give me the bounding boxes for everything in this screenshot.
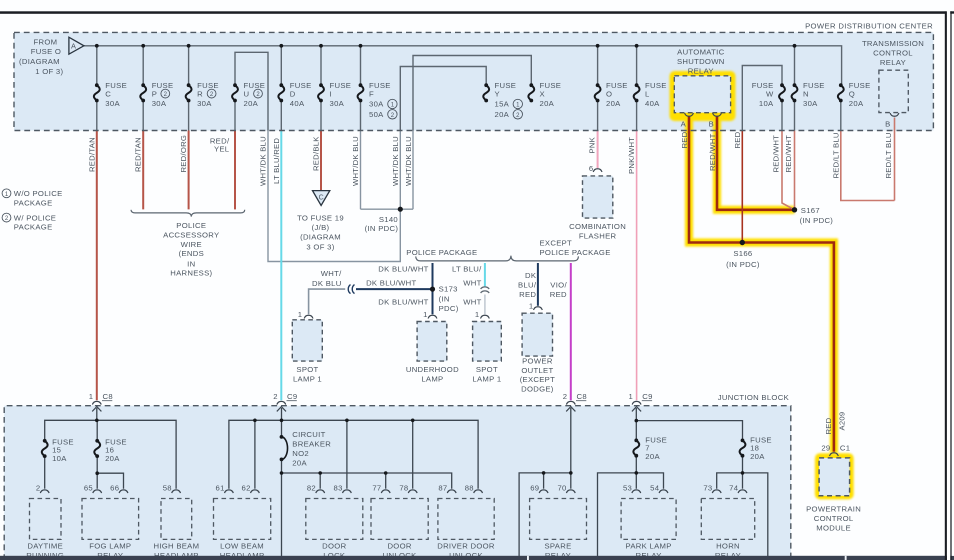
- svg-text:RED/BLK: RED/BLK: [312, 136, 321, 171]
- svg-text:I: I: [330, 89, 332, 98]
- wire fuse L drop: [636, 46, 638, 131]
- power distribution center box fill: [14, 32, 933, 130]
- pin number labels: [36, 484, 739, 493]
- svg-text:2: 2: [36, 484, 41, 493]
- wire WHT/DK BLU fuse U feed loop from S140: [235, 52, 268, 130]
- svg-text:(IN PDC): (IN PDC): [365, 224, 399, 233]
- svg-text:POLICE PACKAGE: POLICE PACKAGE: [540, 248, 611, 257]
- label dk blu/red: [518, 271, 537, 299]
- wire pin 82 drop: [319, 473, 321, 489]
- svg-text:(EXCEPT: (EXCEPT: [520, 375, 555, 384]
- svg-text:(IN PDC): (IN PDC): [800, 216, 834, 225]
- svg-text:EXCEPT: EXCEPT: [540, 238, 573, 247]
- svg-text:X: X: [540, 89, 545, 98]
- svg-text:B: B: [709, 120, 714, 129]
- C9b connector arc+arrow: [632, 401, 641, 404]
- fuse F: [358, 83, 364, 102]
- triangle A from fuse O: [69, 37, 84, 54]
- svg-text:62: 62: [242, 484, 251, 493]
- svg-text:10A: 10A: [52, 454, 67, 463]
- svg-text:RELAY: RELAY: [688, 66, 714, 75]
- fuse U: [232, 83, 238, 102]
- fuse D: [278, 83, 284, 102]
- svg-text:(ENDS: (ENDS: [179, 249, 204, 258]
- svg-text:U: U: [244, 89, 250, 98]
- wire WHT to spot lamp 1 right: [484, 295, 486, 315]
- svg-text:W/ POLICE: W/ POLICE: [14, 213, 56, 222]
- svg-text:30A: 30A: [330, 99, 345, 108]
- svg-text:W/O POLICE: W/O POLICE: [14, 189, 63, 198]
- svg-text:MODULE: MODULE: [816, 524, 851, 533]
- wire RED/LT BLU fuse Q: [841, 131, 895, 201]
- wire pin 69 drop: [543, 473, 545, 489]
- park lamp relay box: [621, 499, 676, 540]
- PCM pin 29 connector: [830, 453, 839, 456]
- svg-text:D: D: [290, 89, 296, 98]
- svg-text:POWER: POWER: [522, 357, 553, 366]
- svg-text:TRANSMISSION: TRANSMISSION: [862, 39, 924, 48]
- wire RED/WHT fuse W to S167: [782, 131, 795, 210]
- labels lt blu / wht: [452, 265, 482, 307]
- svg-text:LT BLU/RED: LT BLU/RED: [272, 138, 281, 184]
- svg-text:82: 82: [307, 484, 316, 493]
- wire fuse P drop: [142, 46, 144, 131]
- svg-text:RED/LT BLU: RED/LT BLU: [831, 132, 840, 178]
- svg-text:61: 61: [216, 484, 225, 493]
- horn relay box: [701, 499, 754, 540]
- svg-text:B: B: [885, 120, 890, 129]
- wire fuse Q bottom inside PDC: [840, 101, 842, 131]
- label spot lamp 1 left: [293, 365, 322, 383]
- wire spare relay bus: [519, 473, 571, 556]
- svg-text:RED/ORG: RED/ORG: [179, 135, 188, 173]
- wire DK BLU/RED to power outlet: [537, 263, 539, 306]
- svg-text:RED: RED: [550, 290, 567, 299]
- svg-text:S167: S167: [801, 206, 820, 215]
- svg-text:(IN PDC): (IN PDC): [726, 260, 760, 269]
- label S166: [726, 249, 760, 269]
- fuse O: [595, 83, 601, 102]
- bottom dark bar: [0, 556, 954, 560]
- wire fuse W loop to S166 RED (gray inside PDC): [742, 66, 782, 131]
- svg-text:3 OF 3): 3 OF 3): [306, 242, 334, 251]
- fuse U label: [244, 81, 266, 108]
- fuse C: [94, 83, 100, 102]
- svg-text:POWER DISTRIBUTION CENTER: POWER DISTRIBUTION CENTER: [805, 22, 933, 31]
- svg-text:CONTROL: CONTROL: [873, 49, 913, 58]
- fuse R: [186, 83, 192, 102]
- wire ASD relay pin B RED/WHT core: [717, 117, 793, 210]
- svg-text:LAMP 1: LAMP 1: [293, 374, 322, 383]
- note 1 w/o police package: [2, 189, 11, 198]
- ASD relay label: [677, 48, 725, 76]
- svg-text:(DIAGRAM: (DIAGRAM: [19, 57, 60, 66]
- wire fuse U bottom: [234, 101, 236, 131]
- pin connector arcs at bottom boxes: [40, 490, 747, 493]
- svg-text:SHUTDOWN: SHUTDOWN: [677, 57, 725, 66]
- wire RED/TAN fuse C to C8: [96, 131, 98, 401]
- fuse I: [318, 83, 324, 102]
- svg-text:Y: Y: [495, 89, 500, 98]
- svg-text:66: 66: [110, 484, 119, 493]
- wire LT BLU/RED fuse D to C9: [280, 131, 282, 401]
- svg-text:58: 58: [163, 484, 172, 493]
- svg-text:6: 6: [589, 164, 594, 173]
- power outlet box: [522, 313, 552, 356]
- svg-text:78: 78: [399, 484, 408, 493]
- daytime running lamp relay box: [30, 499, 62, 540]
- svg-text:BREAKER: BREAKER: [292, 440, 331, 449]
- spot lamp 1 right box: [473, 322, 502, 362]
- wire fuse W bottom / fuse N drop: [782, 46, 795, 131]
- svg-text:20A: 20A: [645, 452, 660, 461]
- svg-text:65: 65: [84, 484, 93, 493]
- svg-text:69: 69: [530, 484, 539, 493]
- svg-text:WHT/DK BLU: WHT/DK BLU: [404, 136, 413, 186]
- node S166: [740, 240, 745, 245]
- label S173: [439, 285, 459, 314]
- label S167: [800, 206, 834, 225]
- bottom box labels row1: [27, 542, 740, 551]
- ASD relay box: [674, 76, 730, 113]
- label spot lamp 1 right: [472, 365, 501, 383]
- svg-text:P: P: [152, 89, 157, 98]
- svg-text:RED: RED: [680, 131, 689, 148]
- svg-text:A: A: [681, 120, 687, 129]
- svg-text:R: R: [197, 89, 203, 98]
- bottom box labels row2 (clipped by bar): [26, 551, 741, 560]
- fuse 16 label: [105, 438, 127, 463]
- svg-text:50A: 50A: [369, 110, 384, 119]
- svg-text:POLICE PACKAGE: POLICE PACKAGE: [406, 248, 477, 257]
- fuse N: [792, 83, 798, 102]
- svg-text:DK: DK: [525, 271, 537, 280]
- svg-text:10A: 10A: [759, 99, 774, 108]
- circuit breaker NO2 arc: [282, 437, 288, 460]
- fuse W label: [752, 81, 774, 108]
- svg-text:30A: 30A: [197, 99, 212, 108]
- fuse X: [528, 83, 534, 102]
- svg-text:WHT: WHT: [463, 278, 481, 287]
- wire park lamp bus: [598, 473, 664, 556]
- TCR pin B connector: [890, 113, 899, 116]
- fog lamp relay box: [82, 499, 139, 540]
- fuse P: [140, 83, 146, 102]
- svg-text:WHT/DK BLU: WHT/DK BLU: [259, 136, 268, 186]
- svg-text:FLASHER: FLASHER: [579, 232, 617, 241]
- label S140: [365, 215, 399, 233]
- combination flasher pin 6 connector: [593, 169, 602, 172]
- fuse 15: [42, 439, 48, 458]
- C9 connector arc+arrow: [277, 401, 286, 404]
- svg-text:2: 2: [273, 392, 278, 401]
- svg-text:RED: RED: [733, 131, 742, 148]
- svg-text:IN: IN: [187, 259, 195, 268]
- wire WHT/DK BLU fuse X feed loop: [413, 56, 531, 131]
- svg-text:AUTOMATIC: AUTOMATIC: [677, 48, 724, 57]
- label red/yel: [210, 136, 230, 153]
- svg-text:PARK LAMP: PARK LAMP: [626, 542, 672, 551]
- svg-text:L: L: [645, 89, 650, 98]
- fuse O label: [606, 81, 628, 108]
- svg-text:RED/TAN: RED/TAN: [134, 137, 143, 172]
- svg-text:20A: 20A: [244, 99, 259, 108]
- svg-text:Q: Q: [849, 89, 855, 98]
- wire fuse 15 to pin 2: [44, 456, 46, 489]
- JB dashed border (top/left/right): [4, 406, 791, 560]
- svg-text:VIO/: VIO/: [550, 281, 567, 290]
- wire fuse C drop: [96, 46, 98, 131]
- svg-text:DOOR: DOOR: [322, 542, 346, 551]
- wire ASD relay pin A RED core: [689, 117, 834, 452]
- fuse Q: [838, 83, 844, 102]
- wire ASD relay pin B highlighted yellow glow: [717, 115, 795, 210]
- wire WHT/DK BLU to spot lamp 1 left: [309, 289, 346, 314]
- svg-text:HARNESS): HARNESS): [170, 269, 212, 278]
- fuse Y label: [495, 81, 517, 119]
- top frame black line: [0, 11, 946, 14]
- svg-text:77: 77: [372, 484, 381, 493]
- svg-text:20A: 20A: [495, 110, 510, 119]
- svg-text:RED/WHT: RED/WHT: [784, 135, 793, 173]
- driver door unlock relay box: [438, 499, 494, 540]
- wire RED/WHT fuse N to S167: [794, 131, 796, 210]
- right page frame: [945, 11, 947, 560]
- wire RED/TAN fuse P to police brace: [142, 131, 144, 210]
- wire fuse R drop: [188, 46, 190, 131]
- svg-text:20A: 20A: [105, 454, 120, 463]
- svg-text:30A: 30A: [152, 99, 167, 108]
- fuse F label: [369, 81, 391, 119]
- wire fuse D drop: [280, 46, 282, 131]
- fuse L label: [645, 81, 667, 108]
- high beam headlamp relay box: [161, 499, 192, 540]
- svg-text:30A: 30A: [369, 100, 384, 109]
- svg-text:RED: RED: [824, 417, 833, 434]
- svg-text:C8: C8: [103, 392, 113, 401]
- wire DK BLU/WHT S173 horizontal: [356, 288, 433, 290]
- svg-text:HIGH BEAM: HIGH BEAM: [153, 542, 199, 551]
- svg-text:LAMP: LAMP: [421, 374, 443, 383]
- wire RED fuse W loop below PDC to S166: [741, 131, 743, 243]
- wire C9b stem fuse 7: [635, 408, 637, 489]
- label to fuse 19: [297, 214, 344, 252]
- svg-text:RED: RED: [519, 290, 536, 299]
- svg-text:PNK/WHT: PNK/WHT: [627, 137, 636, 174]
- svg-text:C8: C8: [577, 392, 587, 401]
- svg-text:SPOT: SPOT: [296, 365, 318, 374]
- wire fuse 16 stem: [96, 420, 98, 488]
- svg-text:(DIAGRAM: (DIAGRAM: [300, 233, 341, 242]
- svg-text:RELAY: RELAY: [880, 58, 906, 67]
- label police accessory wire: [163, 221, 219, 278]
- svg-text:1: 1: [89, 392, 94, 401]
- svg-text:DRIVER DOOR: DRIVER DOOR: [437, 542, 495, 551]
- TCR relay box: [879, 70, 908, 112]
- fuse L: [634, 83, 640, 102]
- label from fuse O: [19, 37, 63, 76]
- svg-text:15A: 15A: [495, 100, 510, 109]
- svg-text:WHT/: WHT/: [321, 269, 342, 278]
- fuse I label: [330, 81, 352, 108]
- svg-text:73: 73: [703, 484, 712, 493]
- svg-text:OUTLET: OUTLET: [521, 366, 553, 375]
- svg-text:20A: 20A: [849, 99, 864, 108]
- wire fuse 16 branch to pin 66: [97, 473, 123, 489]
- PDC dashed border: [14, 32, 933, 130]
- svg-text:C9: C9: [287, 392, 297, 401]
- svg-text:DODGE): DODGE): [521, 384, 554, 393]
- svg-text:HORN: HORN: [716, 542, 740, 551]
- fuse 16: [94, 439, 100, 458]
- door unlock relay box: [371, 499, 428, 540]
- fuse R label: [197, 81, 219, 108]
- svg-text:1: 1: [423, 310, 428, 319]
- fuse 7: [633, 439, 639, 458]
- svg-text:TO FUSE 19: TO FUSE 19: [297, 214, 344, 223]
- combination flasher box: [583, 176, 613, 218]
- svg-text:C: C: [105, 89, 111, 98]
- wire fuse F drop: [360, 46, 362, 131]
- svg-text:SPARE: SPARE: [545, 542, 572, 551]
- svg-text:S173: S173: [439, 285, 458, 294]
- wire C9 stem: [281, 408, 283, 437]
- label underhood lamp: [406, 365, 459, 383]
- wire C8 stem into junction block: [96, 408, 98, 420]
- svg-text:SPOT: SPOT: [476, 365, 498, 374]
- svg-text:40A: 40A: [290, 99, 305, 108]
- svg-text:RED/TAN: RED/TAN: [87, 137, 96, 172]
- svg-text:WHT/DK BLU: WHT/DK BLU: [351, 136, 360, 186]
- svg-text:N: N: [803, 89, 809, 98]
- vertical wire labels below PDC: [87, 131, 893, 434]
- node S173: [430, 287, 435, 292]
- inline connector on LT BLU/WHT wire: [481, 287, 490, 293]
- svg-text:RED/WHT: RED/WHT: [771, 135, 780, 173]
- svg-text:DK BLU/WHT: DK BLU/WHT: [366, 278, 416, 287]
- fuse 18 label: [750, 435, 772, 461]
- svg-text:29: 29: [821, 443, 830, 452]
- svg-text:(IN: (IN: [439, 294, 450, 303]
- ASD relay yellow highlight: [670, 71, 736, 121]
- svg-text:70: 70: [557, 484, 566, 493]
- door lock relay box: [306, 499, 363, 540]
- svg-text:FROM: FROM: [34, 37, 58, 46]
- svg-text:NO2: NO2: [292, 449, 309, 458]
- fuse 15 label: [52, 438, 74, 463]
- svg-text:40A: 40A: [645, 99, 660, 108]
- fuse P label: [152, 81, 174, 108]
- svg-text:C1: C1: [840, 443, 850, 452]
- triangle C to fuse 19: [313, 191, 330, 206]
- svg-text:WHT: WHT: [463, 297, 481, 306]
- C8b connector arc+arrow: [566, 401, 575, 404]
- svg-text:O: O: [606, 89, 612, 98]
- node S167: [792, 207, 797, 212]
- wire ASD relay pin A highlighted yellow glow: [689, 115, 834, 453]
- spot lamp 1 left box: [292, 320, 322, 361]
- PCM yellow highlight: [815, 453, 854, 499]
- underhood lamp box: [417, 322, 447, 362]
- pin 1 labels mid boxes: [298, 164, 594, 319]
- wire RED/YEL fuse U to police brace: [234, 131, 236, 210]
- fuse X label: [540, 81, 562, 108]
- svg-text:20A: 20A: [292, 459, 307, 468]
- svg-text:A209: A209: [838, 412, 847, 431]
- svg-text:PACKAGE: PACKAGE: [14, 223, 53, 232]
- wire WHT/DK BLU fuse F output to S140: [360, 131, 362, 210]
- svg-text:FOG LAMP: FOG LAMP: [89, 542, 131, 551]
- ASD relay pin B connector: [713, 113, 722, 116]
- svg-text:(J/B): (J/B): [312, 223, 330, 232]
- svg-text:LOW BEAM: LOW BEAM: [220, 542, 264, 551]
- bottom component boxes: [30, 499, 755, 540]
- svg-text:RED/WHT: RED/WHT: [708, 133, 717, 171]
- fuse N label: [803, 81, 825, 108]
- svg-text:PACKAGE: PACKAGE: [14, 198, 53, 207]
- label powertrain control module: [806, 505, 861, 533]
- wire VIO/RED to C8: [570, 263, 572, 400]
- fuse W: [779, 83, 785, 102]
- wire JB bus C8: [45, 420, 176, 488]
- svg-text:BLU/: BLU/: [518, 281, 537, 290]
- fuse 18: [740, 439, 746, 458]
- svg-text:RED/LT BLU: RED/LT BLU: [884, 132, 893, 178]
- svg-text:JUNCTION BLOCK: JUNCTION BLOCK: [718, 393, 790, 402]
- svg-text:1: 1: [475, 310, 480, 319]
- svg-text:54: 54: [650, 484, 660, 493]
- TCR label: [862, 39, 924, 67]
- wire fuse I drop: [320, 46, 322, 131]
- svg-text:DK BLU: DK BLU: [312, 279, 342, 288]
- wire WHT/DK BLU fuse Y feed loop: [400, 67, 486, 131]
- wire horn relay bus: [717, 473, 768, 556]
- C8 connector arc+arrow: [92, 401, 101, 404]
- svg-text:WIRE: WIRE: [181, 240, 202, 249]
- wire PNK fuse O to combination flasher: [597, 131, 599, 169]
- svg-text:YEL: YEL: [214, 145, 230, 154]
- wire fuse O drop: [597, 46, 599, 131]
- fuse D label: [290, 81, 312, 108]
- label combination flasher: [569, 222, 626, 241]
- svg-text:C: C: [319, 194, 324, 201]
- svg-text:1: 1: [298, 310, 303, 319]
- svg-text:20A: 20A: [606, 99, 621, 108]
- junction dots junction block: [95, 419, 744, 476]
- wire pin 77 drop: [385, 473, 387, 489]
- ASD relay pin A connector: [685, 113, 694, 116]
- wire fuse 18 to horn bus: [742, 456, 744, 489]
- wire RED/LT BLU TCR pin B: [894, 118, 896, 201]
- circuit breaker label: [292, 430, 331, 468]
- label except police package: [540, 238, 611, 257]
- svg-text:A: A: [71, 42, 76, 51]
- svg-text:COMBINATION: COMBINATION: [569, 222, 626, 231]
- svg-text:87: 87: [438, 484, 447, 493]
- wire pin 62 drop: [254, 420, 256, 488]
- node S140: [398, 207, 403, 212]
- police package brace: [416, 256, 579, 261]
- wire DK BLU/WHT S173 vertical to underhood lamp: [432, 263, 434, 314]
- svg-text:88: 88: [465, 484, 474, 493]
- low beam headlamp relay box: [214, 499, 271, 540]
- main bus wire from triangle A: [84, 46, 842, 85]
- svg-text:WHT/DK BLU: WHT/DK BLU: [391, 136, 400, 186]
- wire JB bus C9: [229, 420, 478, 488]
- wire circuit breaker output bus: [282, 459, 452, 556]
- wire C8b stem to spare relay bus: [570, 408, 572, 489]
- label power outlet: [520, 357, 555, 394]
